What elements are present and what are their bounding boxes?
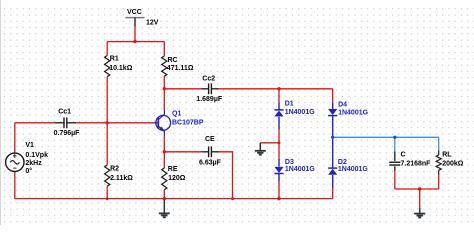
wire C bottom red	[394, 171, 396, 189]
wire RE top lead	[163, 152, 165, 168]
svg-text:D3: D3	[285, 159, 294, 166]
wire R2 bottom lead	[106, 186, 108, 198]
wire RC bottom to collector junction	[163, 76, 165, 89]
wire VCC stem red	[134, 27, 136, 42]
junction cyan rail / C	[393, 136, 396, 139]
diode D3	[274, 167, 283, 173]
ground at bridge midpoint	[259, 143, 261, 151]
capacitor Cc2	[201, 88, 208, 90]
svg-text:12V: 12V	[146, 20, 159, 27]
wire Cc2 right to bridge	[219, 88, 333, 90]
capacitor CE	[201, 151, 208, 153]
wire RC top lead	[163, 42, 165, 56]
wire V1 top to base rail corner	[14, 123, 16, 153]
ground under RE	[163, 199, 165, 214]
junction R2 / bottom rail	[106, 197, 109, 200]
svg-text:BC107BP: BC107BP	[172, 120, 204, 127]
D3 leads	[278, 159, 280, 167]
wire emitter to CE left	[164, 151, 201, 153]
svg-text:120Ω: 120Ω	[168, 175, 186, 182]
svg-text:1N4001G: 1N4001G	[285, 166, 316, 173]
wire CE right then down to bottom rail	[219, 152, 233, 199]
ground under C-RL	[419, 208, 421, 214]
resistor RE	[162, 168, 167, 190]
svg-text:0°: 0°	[25, 167, 32, 175]
wire bridge left rail D1 top	[278, 89, 280, 102]
source V1	[6, 153, 24, 171]
resistor RL	[438, 151, 440, 156]
wire base rail Cc1 left	[15, 122, 55, 124]
svg-text:Q1: Q1	[172, 111, 181, 118]
capacitor C	[394, 152, 396, 162]
svg-text:Cc1: Cc1	[58, 109, 71, 116]
svg-text:CE: CE	[205, 136, 215, 143]
wire bridge right rail bottom to D2	[332, 188, 334, 199]
svg-text:RC: RC	[168, 57, 178, 64]
wire top rail R1-RC	[107, 41, 164, 43]
wire left bridge rail D1-D3 segment	[278, 130, 280, 159]
wire R1 bottom to base rail	[106, 77, 108, 123]
wire R2 top lead	[106, 123, 108, 165]
svg-text:2kHz: 2kHz	[25, 160, 42, 167]
svg-text:1N4001G: 1N4001G	[285, 109, 316, 116]
diode D1	[274, 111, 283, 117]
wire Cc2 left	[164, 88, 201, 90]
svg-text:6.63µF: 6.63µF	[199, 160, 222, 167]
wire V1 bottom	[14, 172, 16, 199]
diode D4	[328, 109, 337, 115]
wire cyan output rail	[333, 136, 439, 138]
svg-text:D1: D1	[285, 101, 294, 108]
svg-text:V1: V1	[25, 142, 34, 149]
svg-text:R2: R2	[110, 165, 119, 172]
svg-text:0.1Vpk: 0.1Vpk	[25, 152, 48, 159]
svg-text:471.11Ω: 471.11Ω	[167, 65, 194, 72]
Q1 base blue lead	[155, 122, 158, 124]
wire left bridge rail D3 bottom	[278, 182, 280, 199]
diode D2	[328, 169, 337, 175]
wire collector junction to Q1 collector	[163, 89, 165, 111]
capacitor Cc1	[55, 122, 65, 124]
junction ground stub / left bridge rail	[278, 141, 281, 144]
svg-text:1N4001G: 1N4001G	[338, 166, 369, 173]
svg-text:RL: RL	[442, 151, 452, 158]
svg-text:200kΩ: 200kΩ	[442, 161, 464, 168]
junction RE ground / bottom rail	[163, 197, 166, 200]
wire RE bottom lead	[163, 190, 165, 199]
wire C-RL bottom rail	[395, 188, 439, 190]
resistor R1	[105, 56, 110, 77]
svg-text:1.689µF: 1.689µF	[196, 96, 223, 103]
transistor Q1	[156, 115, 171, 130]
wire bottom rail	[15, 198, 333, 200]
wire Cc1 right to base junction to Q1	[76, 122, 155, 124]
wire Q1 emitter to junction	[163, 137, 165, 152]
svg-text:D2: D2	[338, 159, 347, 166]
svg-text:Cc2: Cc2	[202, 75, 215, 82]
svg-text:RE: RE	[168, 166, 178, 173]
D1 leads	[278, 102, 280, 109]
svg-text:10.1kΩ: 10.1kΩ	[109, 65, 133, 72]
svg-text:C: C	[401, 151, 406, 158]
junction Cc2 rail / left bridge rail	[277, 87, 280, 90]
wire R1 top lead	[106, 42, 108, 56]
junction VCC / top rail	[133, 40, 136, 43]
resistor R2	[105, 165, 110, 186]
wire cyan RL top lead	[438, 137, 440, 150]
junction D4-D2 / cyan rail	[331, 136, 334, 139]
junction CE / bottom rail	[231, 197, 234, 200]
wire ground stem for C-RL	[419, 189, 421, 208]
svg-text:R1: R1	[110, 55, 119, 62]
power VCC symbol	[125, 17, 144, 19]
wire cyan C top lead	[394, 137, 396, 151]
svg-text:0.796µF: 0.796µF	[54, 130, 81, 137]
junction emitter / RE / CE	[163, 150, 166, 153]
svg-text:1N4001G: 1N4001G	[338, 109, 369, 116]
svg-text:7.2168nF: 7.2168nF	[401, 160, 432, 167]
wire bridge right rail top	[332, 89, 334, 102]
junction D3 / bottom rail	[277, 197, 280, 200]
wire ground stub on left bridge rail	[260, 142, 279, 144]
wire RL bottom red	[438, 175, 440, 190]
junction C-RL bottom / ground	[418, 187, 421, 190]
svg-text:VCC: VCC	[127, 9, 142, 16]
junction RC / Cc2	[163, 87, 166, 90]
D2 leads	[332, 137, 334, 168]
resistor RC	[162, 56, 167, 76]
svg-text:D4: D4	[338, 101, 347, 108]
D4 leads	[332, 102, 334, 109]
junction base rail / R1-R2	[106, 121, 109, 124]
svg-text:2.11kΩ: 2.11kΩ	[110, 175, 133, 182]
